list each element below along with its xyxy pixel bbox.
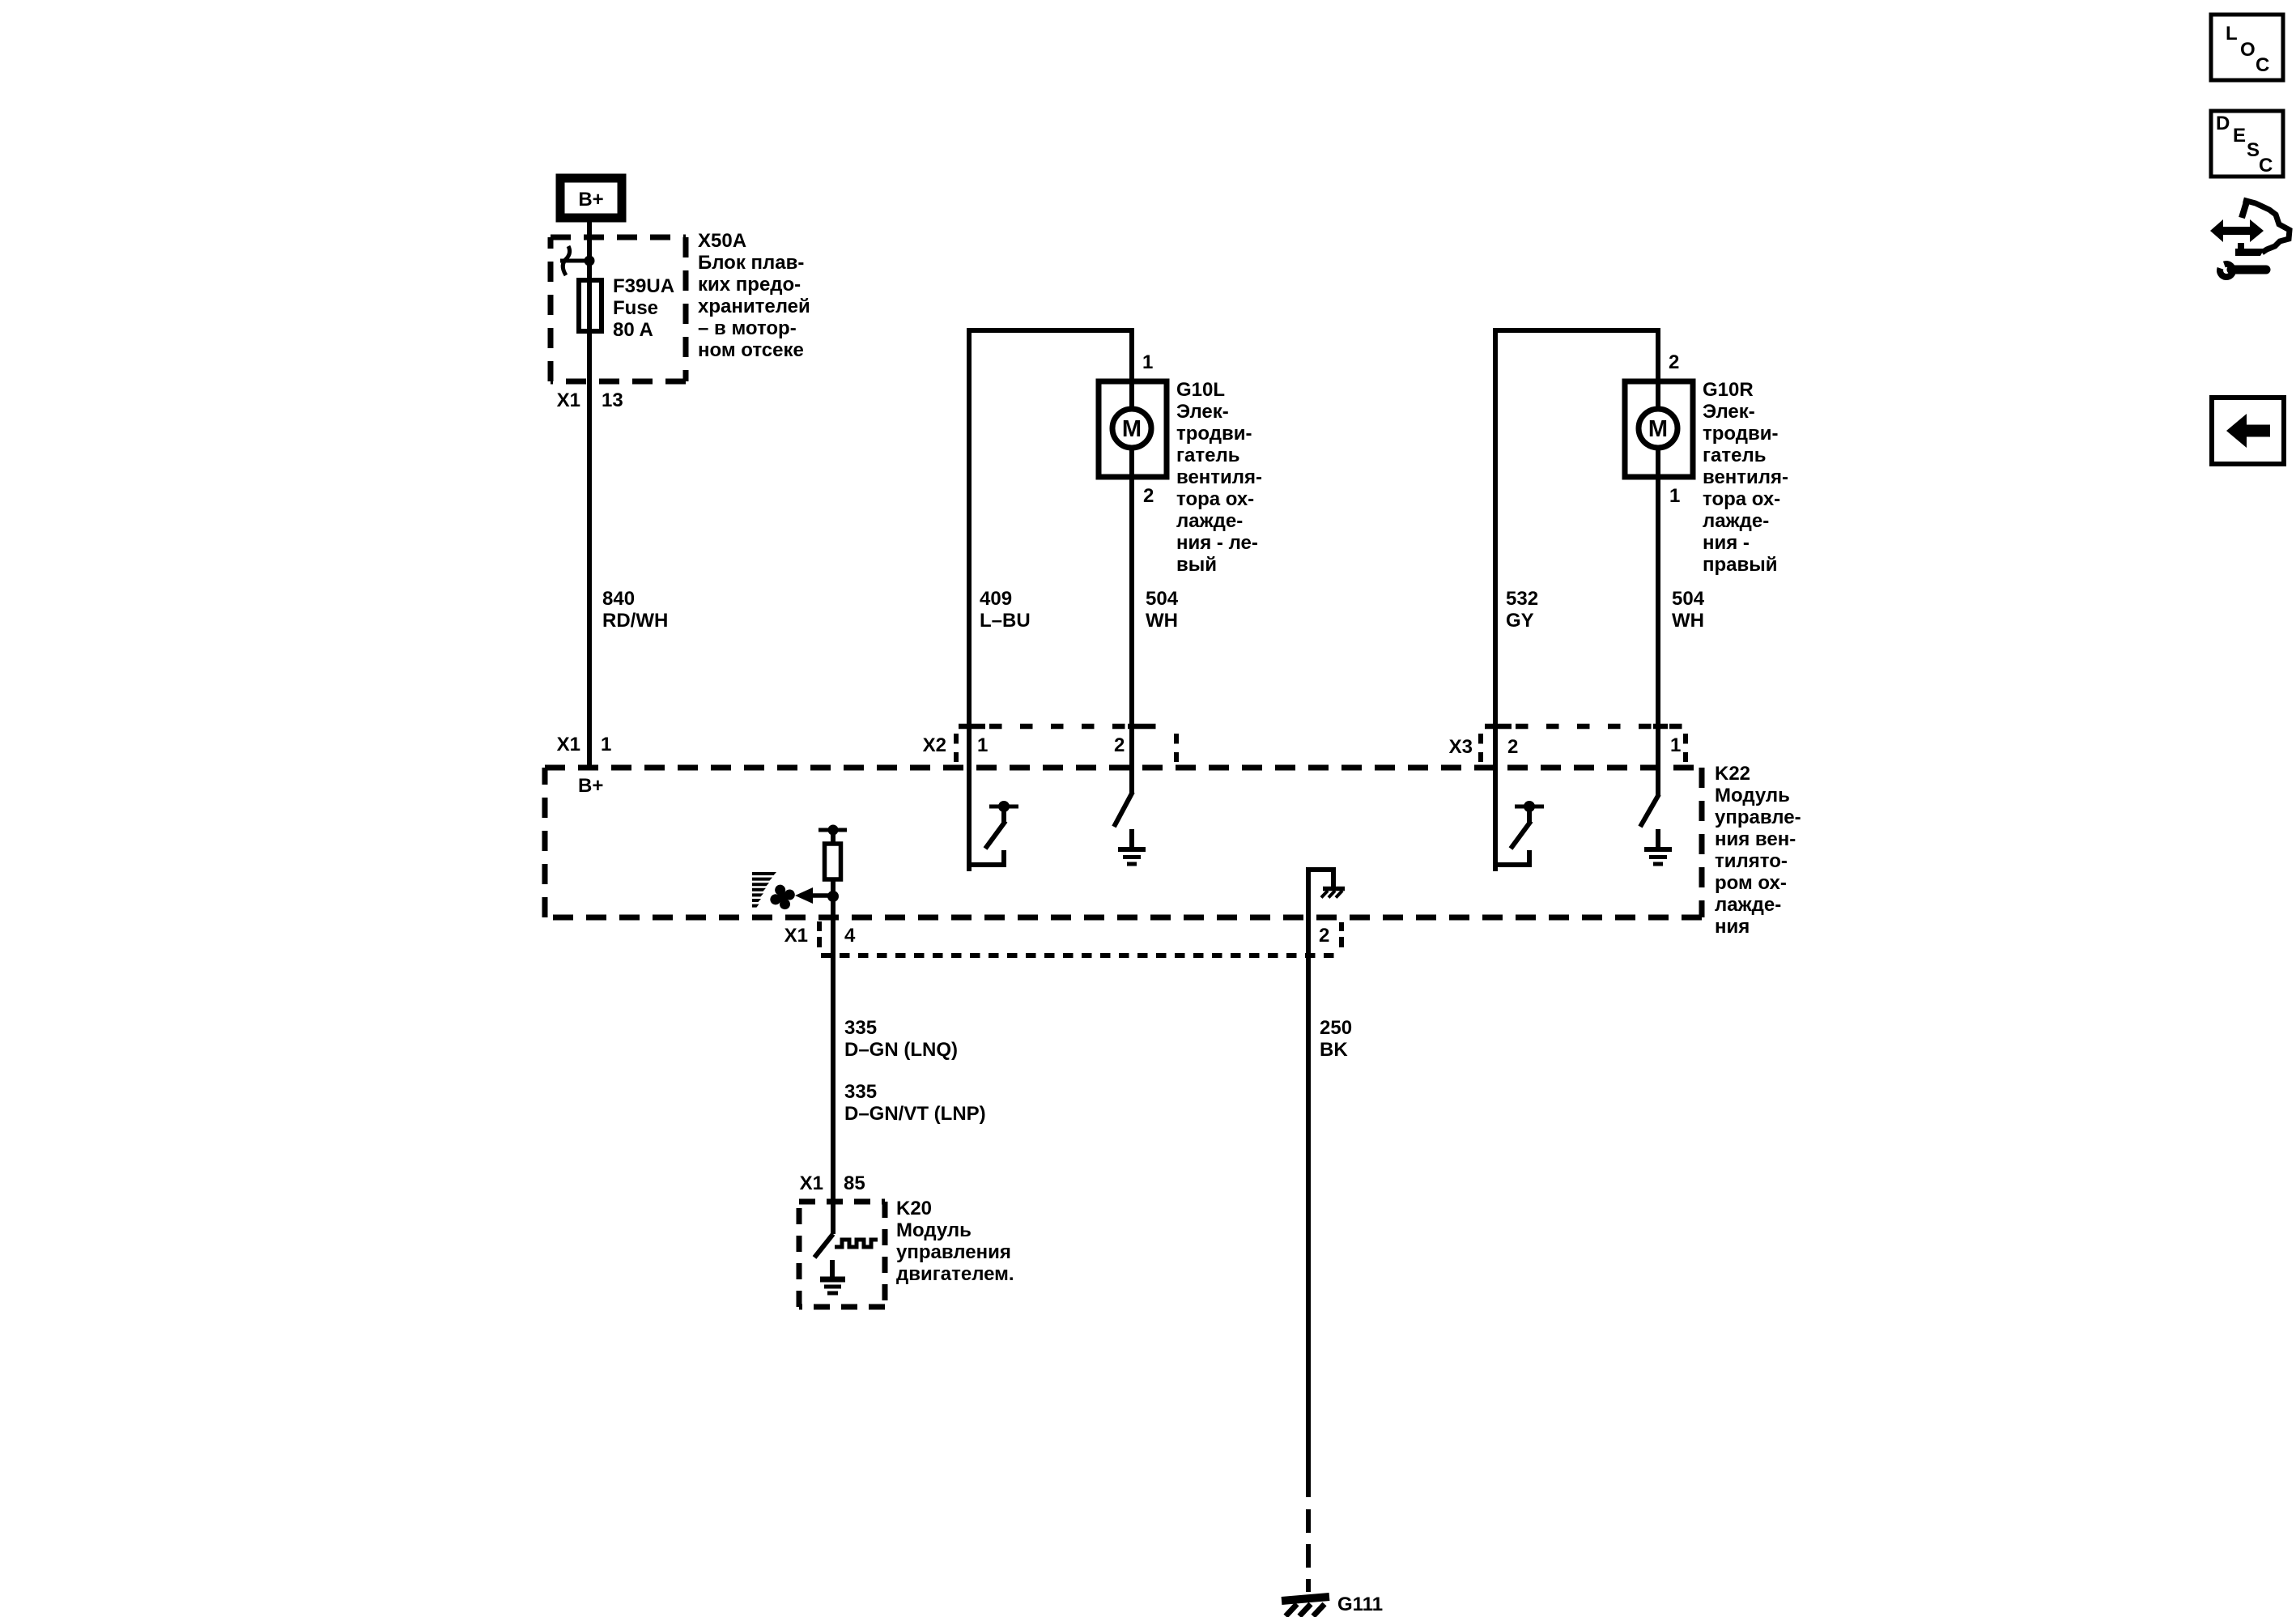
svg-text:504: 504 bbox=[1146, 588, 1179, 610]
svg-text:L–BU: L–BU bbox=[980, 610, 1031, 632]
svg-text:504: 504 bbox=[1672, 588, 1705, 610]
svg-text:1: 1 bbox=[977, 734, 988, 756]
label X50A fuse block bbox=[698, 230, 810, 361]
svg-text:Модуль: Модуль bbox=[1715, 785, 1790, 806]
arrow to fan bbox=[795, 887, 833, 904]
motor G10L box bbox=[1099, 381, 1167, 477]
icon back arrow box bbox=[2212, 398, 2284, 464]
svg-text:D–GN/VT (LNP): D–GN/VT (LNP) bbox=[844, 1103, 986, 1125]
svg-text:840: 840 bbox=[602, 588, 635, 610]
svg-text:гатель: гатель bbox=[1176, 445, 1239, 466]
dashed wire to G111 bbox=[1306, 1509, 1311, 1592]
svg-text:X1: X1 bbox=[557, 734, 580, 755]
svg-text:гатель: гатель bbox=[1703, 445, 1766, 466]
pin labels X1 1 bbox=[557, 734, 612, 755]
svg-text:2: 2 bbox=[1143, 485, 1154, 507]
label G10L bbox=[1176, 379, 1262, 576]
svg-text:409: 409 bbox=[980, 588, 1012, 610]
svg-text:X50A: X50A bbox=[698, 230, 746, 252]
connector X3 dotted box bbox=[1481, 726, 1686, 762]
svg-text:тилято-: тилято- bbox=[1715, 850, 1788, 872]
svg-text:B+: B+ bbox=[578, 775, 603, 797]
label K20 module bbox=[896, 1198, 1014, 1285]
label K22 module bbox=[1715, 763, 1801, 938]
wire label 250 BK bbox=[1320, 1017, 1352, 1061]
motor G10R circle bbox=[1639, 409, 1677, 448]
svg-text:вентиля-: вентиля- bbox=[1703, 466, 1788, 488]
svg-text:WH: WH bbox=[1672, 610, 1704, 632]
svg-text:1: 1 bbox=[1670, 734, 1681, 756]
svg-text:Элек-: Элек- bbox=[1176, 401, 1229, 423]
svg-text:X3: X3 bbox=[1449, 736, 1473, 758]
svg-text:GY: GY bbox=[1506, 610, 1534, 632]
svg-text:4: 4 bbox=[844, 925, 856, 947]
wire label 335 D-GN/VT (LNP) bbox=[844, 1081, 986, 1125]
earth ground bbox=[1118, 829, 1146, 864]
svg-text:1: 1 bbox=[1669, 485, 1680, 507]
svg-text:B+: B+ bbox=[578, 189, 603, 211]
svg-text:ром ох-: ром ох- bbox=[1715, 872, 1787, 894]
relay coil in K22 bbox=[818, 825, 847, 897]
fuse block X50A dashed box bbox=[551, 237, 686, 381]
wire pin1 to motor bbox=[1129, 330, 1134, 380]
svg-text:D: D bbox=[2216, 113, 2230, 134]
svg-text:X1: X1 bbox=[784, 925, 808, 947]
wire label 504 WH bbox=[1672, 588, 1705, 632]
K20 module dashed box bbox=[799, 1202, 885, 1307]
switch in K20 bbox=[814, 1234, 833, 1257]
svg-text:вый: вый bbox=[1176, 554, 1217, 576]
svg-text:лажде-: лажде- bbox=[1715, 894, 1781, 916]
switch X3-2 relay contact bbox=[1495, 801, 1544, 867]
svg-text:532: 532 bbox=[1506, 588, 1538, 610]
wire label 840 RD/WH bbox=[602, 588, 668, 632]
chassis ground in K22 bbox=[1321, 889, 1345, 898]
svg-text:тора ох-: тора ох- bbox=[1176, 488, 1254, 510]
svg-text:тродви-: тродви- bbox=[1703, 423, 1779, 445]
svg-text:1: 1 bbox=[1142, 351, 1153, 373]
square wave symbol bbox=[835, 1240, 878, 1247]
fan icon bbox=[752, 872, 799, 914]
wire bbox=[1493, 328, 1660, 333]
svg-text:хранителей: хранителей bbox=[698, 296, 810, 317]
svg-text:335: 335 bbox=[844, 1081, 877, 1103]
switch X2-2 contact to ground bbox=[1114, 792, 1133, 827]
wire motor to X3-1 bbox=[1656, 477, 1660, 796]
svg-text:2: 2 bbox=[1319, 925, 1329, 947]
label X1 pin 4 bbox=[784, 925, 856, 947]
svg-text:– в мотор-: – в мотор- bbox=[698, 317, 797, 339]
G10R top loop wire bbox=[1493, 328, 1498, 871]
svg-text:ния: ния bbox=[1715, 916, 1750, 938]
label F39UA Fuse 80 A bbox=[613, 275, 674, 341]
icon DESC box bbox=[2211, 111, 2283, 177]
svg-text:2: 2 bbox=[1669, 351, 1679, 373]
svg-text:K20: K20 bbox=[896, 1198, 932, 1219]
svg-text:ких предо-: ких предо- bbox=[698, 274, 801, 296]
svg-text:O: O bbox=[2240, 39, 2256, 61]
motor G10L wires inside bbox=[1129, 381, 1134, 409]
svg-text:80 A: 80 A bbox=[613, 319, 653, 341]
svg-text:BK: BK bbox=[1320, 1039, 1348, 1061]
switch X3-1 contact to ground bbox=[1640, 794, 1659, 827]
wire 250 BK down bbox=[1306, 917, 1311, 1497]
icon car with double arrow and wrench bbox=[2210, 199, 2290, 277]
svg-text:ния вен-: ния вен- bbox=[1715, 828, 1796, 850]
svg-text:тора ох-: тора ох- bbox=[1703, 488, 1780, 510]
wire label 532 GY bbox=[1506, 588, 1538, 632]
motor G10L circle bbox=[1112, 409, 1151, 448]
svg-text:G10R: G10R bbox=[1703, 379, 1754, 401]
svg-text:M: M bbox=[1122, 416, 1142, 442]
svg-text:G111: G111 bbox=[1337, 1594, 1383, 1615]
svg-text:WH: WH bbox=[1146, 610, 1178, 632]
icon LOC box bbox=[2211, 15, 2283, 80]
pin labels X1 85 bbox=[800, 1172, 865, 1194]
wire label 504 WH bbox=[1146, 588, 1179, 632]
wire B+ to K22 (840 RD/WH) bbox=[587, 222, 592, 768]
wire 250 BK top corner bbox=[1308, 870, 1333, 917]
svg-text:M: M bbox=[1648, 416, 1668, 442]
motor G10R wires inside bbox=[1656, 381, 1660, 409]
svg-text:управления: управления bbox=[896, 1241, 1011, 1263]
switch X2-1 relay contact bbox=[969, 801, 1018, 867]
svg-text:лажде-: лажде- bbox=[1703, 510, 1769, 532]
svg-text:ния -: ния - bbox=[1703, 532, 1750, 554]
svg-text:Элек-: Элек- bbox=[1703, 401, 1755, 423]
svg-text:1: 1 bbox=[601, 734, 611, 755]
svg-text:85: 85 bbox=[844, 1172, 865, 1194]
wire bbox=[967, 328, 1134, 333]
svg-text:2: 2 bbox=[1507, 736, 1518, 758]
svg-text:K22: K22 bbox=[1715, 763, 1750, 785]
motor G10R box bbox=[1625, 381, 1693, 477]
svg-text:Модуль: Модуль bbox=[896, 1219, 972, 1241]
wire 335 D-GN to K20 bbox=[831, 896, 835, 1234]
B+ power symbol box bbox=[560, 178, 622, 218]
svg-text:ном отсеке: ном отсеке bbox=[698, 339, 804, 361]
svg-text:G10L: G10L bbox=[1176, 379, 1225, 401]
svg-text:правый: правый bbox=[1703, 554, 1778, 576]
svg-text:лажде-: лажде- bbox=[1176, 510, 1243, 532]
connector X1 of K22 dotted bbox=[819, 921, 1342, 955]
wire label 409 L-BU bbox=[980, 588, 1031, 632]
label G10R bbox=[1703, 379, 1788, 576]
svg-text:X1: X1 bbox=[800, 1172, 823, 1194]
svg-text:2: 2 bbox=[1114, 734, 1125, 756]
wire pin2 to motor bbox=[1656, 330, 1660, 380]
earth ground in K20 bbox=[820, 1260, 845, 1293]
svg-text:Fuse: Fuse bbox=[613, 297, 658, 319]
svg-text:X2: X2 bbox=[923, 734, 946, 756]
junction dot bbox=[827, 891, 839, 902]
svg-text:F39UA: F39UA bbox=[613, 275, 674, 297]
svg-text:C: C bbox=[2259, 155, 2273, 177]
svg-text:250: 250 bbox=[1320, 1017, 1352, 1039]
wire label 335 D-GN (LNQ) bbox=[844, 1017, 958, 1061]
connector X2 dotted box bbox=[956, 726, 1176, 762]
svg-text:двигателем.: двигателем. bbox=[896, 1263, 1014, 1285]
svg-text:вентиля-: вентиля- bbox=[1176, 466, 1262, 488]
svg-text:X1: X1 bbox=[557, 389, 580, 411]
svg-text:L: L bbox=[2226, 23, 2238, 45]
clip / connection symbol bbox=[560, 246, 595, 275]
fuse F39UA 80A bbox=[579, 280, 602, 331]
K22 module dashed box bbox=[545, 768, 1702, 917]
svg-text:C: C bbox=[2256, 54, 2269, 76]
pin labels X1 13 bbox=[557, 389, 623, 411]
svg-text:D–GN (LNQ): D–GN (LNQ) bbox=[844, 1039, 958, 1061]
svg-text:E: E bbox=[2233, 125, 2246, 147]
svg-text:13: 13 bbox=[602, 389, 623, 411]
svg-text:335: 335 bbox=[844, 1017, 877, 1039]
svg-text:RD/WH: RD/WH bbox=[602, 610, 668, 632]
ground G111 bbox=[1282, 1597, 1329, 1616]
svg-text:ния - ле-: ния - ле- bbox=[1176, 532, 1258, 554]
svg-text:Блок плав-: Блок плав- bbox=[698, 252, 804, 274]
svg-text:S: S bbox=[2247, 139, 2260, 161]
G10L top loop wire bbox=[967, 328, 972, 871]
svg-text:тродви-: тродви- bbox=[1176, 423, 1252, 445]
wire motor to X2-2 bbox=[1129, 477, 1134, 794]
svg-text:управле-: управле- bbox=[1715, 806, 1801, 828]
earth ground bbox=[1644, 829, 1672, 864]
